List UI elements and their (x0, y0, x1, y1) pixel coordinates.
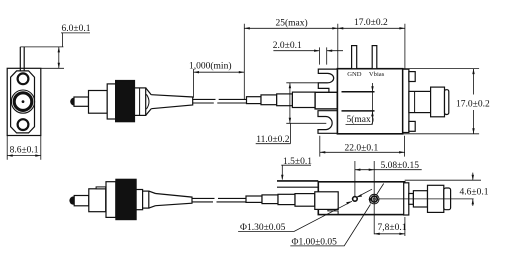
svg-text:11.0±0.2: 11.0±0.2 (256, 135, 290, 145)
bottom receptacle plate (404, 183, 409, 215)
barrel (431, 87, 445, 117)
bottom tab (409, 121, 415, 131)
SC body (89, 189, 106, 212)
centerline axis (379, 198, 474, 200)
crimp step 3 (277, 94, 293, 106)
ringed hole outer (369, 194, 379, 204)
fiber cable top (193, 99, 247, 103)
svg-text:GND: GND (347, 71, 362, 78)
bottom collar (409, 194, 414, 205)
dimension 17.0±0.2 top (338, 24, 405, 69)
receptacle plate top fig (403, 69, 409, 132)
Vbias pin (372, 46, 377, 69)
svg-text:1,000(min): 1,000(min) (189, 61, 231, 72)
dimension 25(max) (244, 24, 337, 100)
pin lead front view (20, 47, 24, 71)
dimension 1.5±0.1 (281, 165, 311, 179)
ferrule (74, 97, 89, 106)
leader Φ1.00±0.05 (290, 184, 383, 246)
svg-text:2.0±0.1: 2.0±0.1 (273, 41, 302, 51)
svg-text:5(max): 5(max) (347, 114, 374, 125)
flange bottom hole (18, 119, 29, 130)
connector back chamfer (146, 88, 152, 116)
svg-text:7,8±0.1: 7,8±0.1 (378, 223, 407, 233)
flange octagon (11, 71, 35, 133)
ringed hole center (373, 198, 375, 200)
bottom stem (413, 191, 427, 207)
connector collar (107, 84, 115, 119)
dimension 6.0±0.1 (20, 33, 90, 68)
SC boot chamfer (149, 191, 156, 208)
FC connector side view: ferrule tip (70, 98, 75, 106)
SC ring 1 (136, 190, 143, 210)
flange center lens ring (14, 93, 32, 111)
small hole (353, 197, 358, 202)
dimension 4.6±0.1 (472, 173, 474, 206)
connector back curve (146, 94, 149, 109)
svg-text:Φ1.00±0.05: Φ1.00±0.05 (292, 237, 338, 247)
module body (337, 69, 402, 134)
stem (409, 91, 431, 112)
fiber cable bottom (192, 198, 246, 202)
connector black band (116, 81, 135, 122)
crimp step 2 (261, 95, 277, 105)
SC ferrule tip (69, 196, 74, 204)
internal chip lines (342, 92, 375, 111)
svg-text:22.0±0.1: 22.0±0.1 (345, 143, 379, 153)
SC ring 2 (143, 191, 149, 208)
svg-text:Φ1.30±0.05: Φ1.30±0.05 (240, 223, 286, 233)
connector nut (135, 88, 146, 116)
dimension 5.08±0.15 (355, 161, 422, 234)
svg-text:17.0±0.2: 17.0±0.2 (456, 99, 490, 109)
dimension 1000(min) (194, 69, 245, 98)
crimp steps bottom (246, 196, 262, 202)
flange center lens outer (11, 90, 34, 113)
GND pin (352, 46, 357, 69)
front view flange body (7, 68, 41, 135)
dimension 11.0±0.2 (256, 83, 328, 144)
connector front cylinder (89, 91, 108, 114)
dimension 7,8±0.1 (374, 217, 405, 236)
end cap (445, 90, 449, 115)
flange center dot (22, 100, 25, 103)
svg-text:Vbias: Vbias (369, 71, 385, 78)
SC ferrule (74, 196, 89, 206)
leader Φ1.30±0.05 (238, 189, 372, 231)
top tab (409, 72, 415, 82)
dimension 8.6±0.1 (7, 136, 41, 160)
nose tube (315, 92, 337, 109)
bottom clip (318, 111, 337, 134)
bottom barrel (428, 185, 444, 212)
dimension 2.0±0.1 (273, 47, 343, 64)
top clip (318, 69, 337, 92)
bottom-left step (328, 209, 338, 214)
svg-text:25(max): 25(max) (276, 18, 308, 29)
crimp step 4 (292, 92, 315, 107)
svg-text:1.5±0.1: 1.5±0.1 (283, 157, 312, 167)
bottom end cap (444, 188, 451, 210)
SC black band (116, 179, 136, 219)
flange top hole (18, 73, 29, 84)
svg-text:5.08±0.15: 5.08±0.15 (381, 161, 420, 171)
dimension 17.0±0.2 right (404, 69, 480, 134)
svg-text:17.0±0.2: 17.0±0.2 (354, 18, 388, 28)
connector boot (151, 95, 193, 109)
ringed hole middle (371, 196, 377, 202)
bottom module body (318, 182, 404, 215)
dimension 5(max) (346, 83, 373, 124)
SC key (96, 187, 106, 189)
SC boot taper (156, 194, 193, 206)
crimp big step overlapping (315, 192, 338, 210)
crimp step 1 (247, 97, 262, 104)
lid lines (277, 180, 318, 182)
svg-text:6.0±0.1: 6.0±0.1 (62, 24, 91, 34)
dimension 22.0±0.1 (320, 136, 405, 157)
SC collar (106, 182, 116, 218)
svg-text:8.6±0.1: 8.6±0.1 (10, 145, 39, 155)
svg-text:4.6±0.1: 4.6±0.1 (460, 188, 489, 198)
